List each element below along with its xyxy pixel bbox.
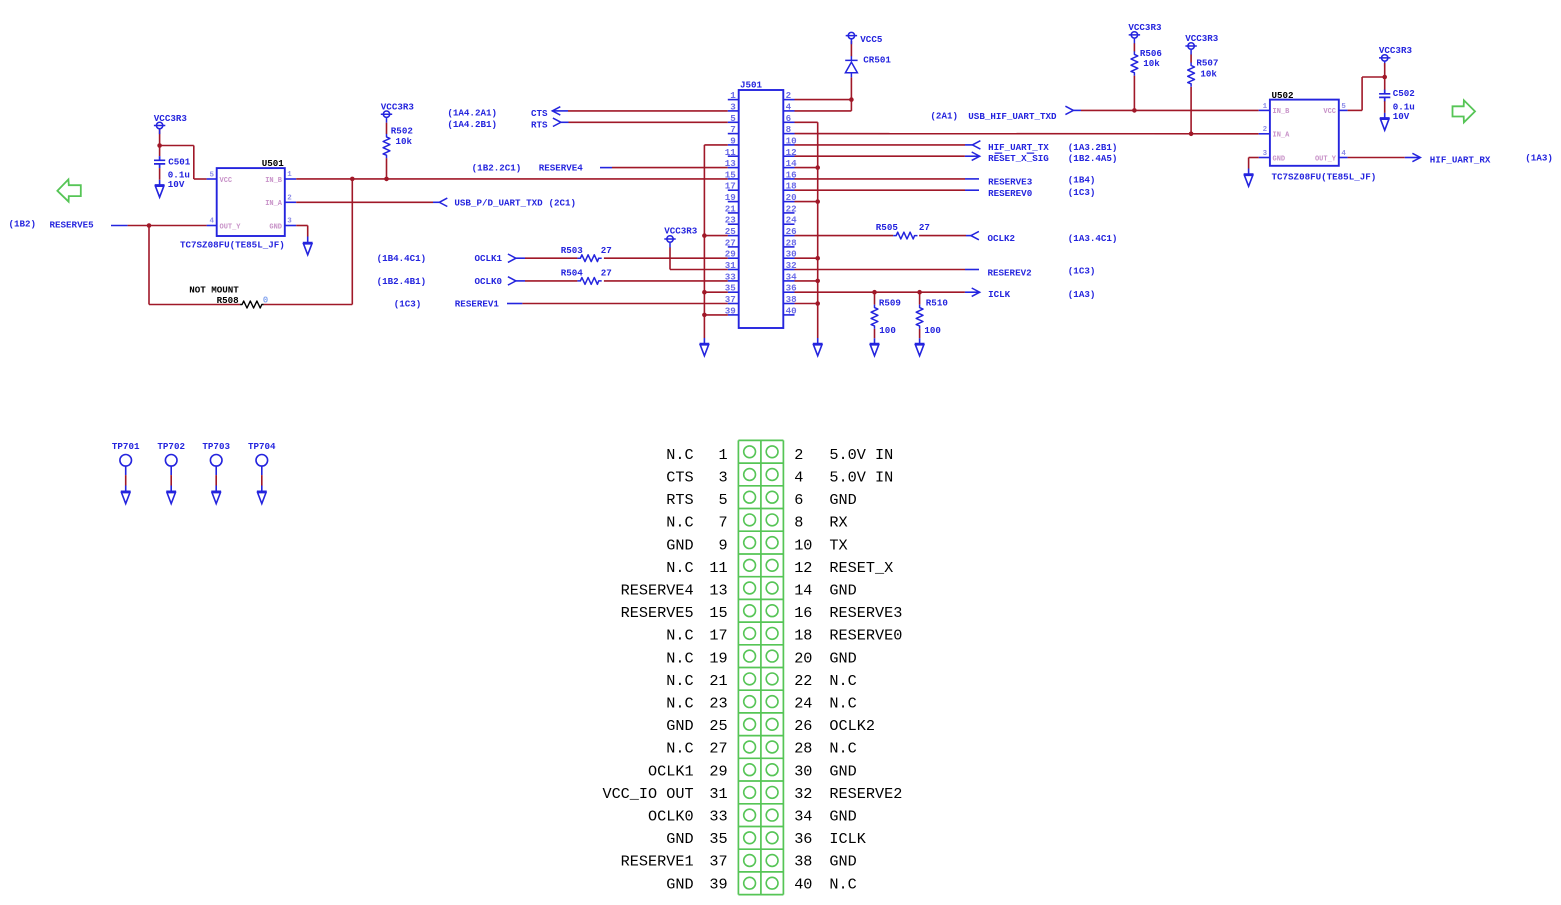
svg-text:J501: J501	[740, 79, 763, 90]
J501 pin 16	[783, 178, 794, 180]
J501 pin 18	[783, 189, 794, 191]
J501 pin 19	[728, 201, 739, 203]
svg-text:(1C3): (1C3)	[1068, 187, 1096, 198]
arrowhead USB_P/D_UART_TXD	[439, 198, 447, 206]
wire VCC3R3 to C501 junction (left)	[159, 129, 161, 146]
U502 pin 2 IN_A stub	[1259, 133, 1270, 135]
junction R507/RX	[1189, 132, 1194, 137]
svg-text:21: 21	[709, 672, 727, 690]
svg-text:N.C: N.C	[666, 740, 693, 758]
svg-text:GND: GND	[829, 649, 856, 667]
svg-text:34: 34	[794, 808, 812, 826]
diode CR501	[845, 56, 857, 78]
U501 pin 5 VCC stub	[207, 178, 217, 180]
ground below TP701	[121, 491, 131, 503]
svg-text:21: 21	[725, 203, 737, 214]
svg-text:(2A1): (2A1)	[930, 111, 958, 122]
svg-text:OCLK0: OCLK0	[475, 276, 503, 287]
table row pins 31/32	[744, 787, 756, 799]
svg-text:RESERVE5: RESERVE5	[50, 220, 95, 231]
svg-text:OCLK1: OCLK1	[475, 253, 503, 264]
svg-text:CR501: CR501	[863, 54, 891, 65]
svg-text:1: 1	[718, 446, 727, 464]
svg-text:39: 39	[709, 875, 727, 893]
svg-text:33: 33	[725, 271, 737, 282]
svg-text:17: 17	[709, 627, 727, 645]
svg-text:13: 13	[709, 582, 727, 600]
svg-text:IN_A: IN_A	[1273, 132, 1291, 140]
wire R509 to ground	[874, 329, 876, 338]
svg-text:TC7SZ08FU(TE85L_JF): TC7SZ08FU(TE85L_JF)	[1272, 172, 1377, 183]
ground below C501	[155, 185, 165, 197]
arrowhead USB_HIF_UART_TXD	[1065, 106, 1073, 114]
svg-text:RESERVE3: RESERVE3	[988, 177, 1033, 188]
svg-text:(1B2): (1B2)	[9, 218, 37, 229]
svg-text:23: 23	[709, 695, 727, 713]
J501 pin 40	[783, 314, 794, 316]
arrowhead HIF_UART_RX	[1412, 153, 1420, 161]
table row pins 29/30	[744, 764, 756, 776]
junction right bus pin14	[815, 165, 820, 170]
svg-text:RESET_X: RESET_X	[829, 559, 893, 577]
svg-text:14: 14	[794, 582, 812, 600]
svg-text:3: 3	[287, 218, 292, 226]
arrowhead HIF_UART_TX	[972, 141, 980, 149]
junction C502/VCC	[1382, 75, 1387, 80]
svg-text:16: 16	[794, 604, 812, 622]
svg-text:38: 38	[794, 853, 812, 871]
svg-text:OUT_Y: OUT_Y	[220, 223, 242, 231]
svg-text:GND: GND	[666, 536, 693, 554]
svg-text:GND: GND	[269, 223, 282, 231]
svg-text:OCLK1: OCLK1	[648, 762, 694, 780]
junction right bus pin34	[815, 279, 820, 284]
svg-text:15: 15	[709, 604, 727, 622]
J501 pin 5	[728, 121, 739, 123]
svg-text:(1C3): (1C3)	[1068, 266, 1096, 277]
wire RESERVE5 to U501 OUT_Y	[128, 225, 207, 227]
J501 pin 39	[728, 314, 739, 316]
svg-text:26: 26	[794, 717, 812, 735]
wire R505 to OCLK2 arrow	[919, 235, 966, 237]
svg-text:13: 13	[725, 158, 737, 169]
svg-text:22: 22	[794, 672, 812, 690]
svg-text:1: 1	[1263, 103, 1268, 111]
svg-text:HIF_UART_TX: HIF_UART_TX	[988, 142, 1049, 153]
U501 pin 3 GND stub	[285, 225, 296, 227]
J501 pin 23	[728, 223, 739, 225]
U502 pin 1 IN_B stub	[1259, 109, 1270, 111]
svg-text:9: 9	[718, 536, 727, 554]
J501 pin 1	[728, 99, 739, 101]
svg-text:(1A3.4C1): (1A3.4C1)	[1068, 233, 1118, 244]
ground below TP703	[211, 491, 221, 503]
svg-text:5: 5	[209, 171, 214, 179]
svg-text:27: 27	[725, 237, 736, 248]
svg-text:18: 18	[794, 627, 812, 645]
svg-text:GND: GND	[829, 491, 856, 509]
svg-text:5: 5	[718, 491, 727, 509]
J501 pin 20	[783, 201, 794, 203]
svg-text:20: 20	[794, 649, 812, 667]
wire VCC3R3 to J501 pin31	[669, 248, 671, 270]
wire ICLK to R509	[874, 292, 876, 304]
svg-text:7: 7	[718, 514, 727, 532]
table row pins 3/4	[744, 469, 756, 481]
table row pins 11/12	[744, 559, 756, 571]
svg-text:VCC: VCC	[1323, 108, 1336, 116]
wire OCLK0 to R504	[525, 280, 577, 282]
J501 pin 7	[728, 133, 739, 135]
J501 pin 13	[728, 167, 739, 169]
wire U502 VCC to VCC3R3/C502	[1348, 109, 1363, 111]
J501 pin 3	[728, 110, 739, 112]
arrowhead RTS	[553, 118, 561, 126]
svg-text:TC7SZ08FU(TE85L_JF): TC7SZ08FU(TE85L_JF)	[180, 240, 285, 251]
table row pins 25/26	[744, 718, 756, 730]
svg-text:10k: 10k	[396, 136, 413, 147]
svg-text:19: 19	[709, 649, 727, 667]
svg-text:(1B2.4B1): (1B2.4B1)	[377, 276, 427, 287]
U501 pin 4 OUT_Y stub	[207, 225, 217, 227]
svg-text:N.C: N.C	[666, 514, 693, 532]
svg-text:R503: R503	[561, 245, 584, 256]
wire ICLK to R510	[919, 292, 921, 304]
svg-text:(1B4.4C1): (1B4.4C1)	[377, 253, 427, 264]
svg-text:(1A3): (1A3)	[1525, 153, 1553, 164]
svg-text:RESEREV1: RESEREV1	[455, 298, 500, 309]
svg-text:36: 36	[794, 830, 812, 848]
svg-text:R508: R508	[217, 295, 240, 306]
svg-text:10k: 10k	[1200, 68, 1217, 79]
svg-text:23: 23	[725, 215, 737, 226]
table row pins 19/20	[744, 650, 756, 662]
wire R507 to RX net	[1190, 87, 1192, 134]
svg-text:VCC3R3: VCC3R3	[664, 226, 698, 237]
svg-text:3: 3	[718, 469, 727, 487]
power symbol VCC3R3 (C501)	[154, 122, 165, 134]
svg-text:U502: U502	[1272, 90, 1294, 101]
wire RTS to J501 pin5	[569, 121, 728, 123]
junction left bus pin25	[702, 233, 707, 238]
table row pins 9/10	[744, 537, 756, 549]
svg-text:5: 5	[1341, 103, 1346, 111]
node junction R508/IN_B	[350, 177, 355, 182]
J501 pin 2	[783, 99, 794, 101]
svg-text:2: 2	[794, 446, 803, 464]
power symbol VCC3R3 (R507)	[1185, 43, 1196, 55]
U502 pin 5 VCC stub	[1339, 109, 1348, 111]
pin table grid	[738, 440, 783, 894]
svg-text:NOT MOUNT: NOT MOUNT	[189, 285, 239, 296]
svg-text:C501: C501	[168, 156, 191, 167]
svg-text:GND: GND	[829, 853, 856, 871]
svg-text:(1A4.2A1): (1A4.2A1)	[447, 108, 497, 119]
svg-text:100: 100	[924, 325, 941, 336]
J501 pin 9	[728, 144, 739, 146]
off-page arrow left (green)	[57, 179, 80, 201]
J501 pin 38	[783, 303, 794, 305]
svg-text:24: 24	[794, 695, 812, 713]
J501 pin 11	[728, 155, 739, 157]
svg-text:OUT_Y: OUT_Y	[1315, 155, 1337, 163]
svg-text:VCC3R3: VCC3R3	[1128, 22, 1162, 33]
svg-text:GND: GND	[829, 582, 856, 600]
svg-text:RESEREV0: RESEREV0	[988, 188, 1032, 199]
net RESERVE5 wire U501.IN_B to J501 pin15	[296, 178, 728, 180]
svg-text:100: 100	[879, 325, 896, 336]
wire RESEREV1 to J501 pin37	[507, 303, 522, 305]
junction ICLK/R509	[872, 290, 877, 295]
svg-text:N.C: N.C	[829, 695, 856, 713]
svg-text:N.C: N.C	[829, 740, 856, 758]
wire U501 GND pin to ground	[296, 225, 308, 227]
svg-text:USB_HIF_UART_TXD: USB_HIF_UART_TXD	[968, 111, 1057, 122]
svg-text:8: 8	[794, 514, 803, 532]
table row pins 21/22	[744, 673, 756, 685]
wire J501 pin2/pin4 to CR501	[795, 99, 852, 101]
table row pins 5/6	[744, 491, 756, 503]
svg-text:(1B2.2C1): (1B2.2C1)	[472, 162, 522, 173]
J501 pin 6	[783, 121, 794, 123]
svg-text:10V: 10V	[168, 179, 185, 190]
svg-text:TX: TX	[829, 536, 847, 554]
svg-text:R509: R509	[879, 297, 901, 308]
svg-text:GND: GND	[829, 808, 856, 826]
wire OCLK1 to R503	[525, 257, 577, 259]
J501 pin 14	[783, 167, 794, 169]
svg-text:GND: GND	[666, 875, 693, 893]
wire R506 to USB_HIF_UART_TXD	[1133, 76, 1135, 111]
resistor R502	[383, 134, 390, 158]
J501 pin 15	[728, 178, 739, 180]
svg-text:GND: GND	[829, 762, 856, 780]
net RESERVE3 wire (pin16)	[795, 178, 966, 180]
wire left GND bus (pins 9,25,35,39)	[704, 144, 727, 146]
svg-text:R505: R505	[876, 222, 899, 233]
J501 pin 10	[783, 144, 794, 146]
svg-text:40: 40	[794, 875, 812, 893]
svg-text:IN_A: IN_A	[265, 200, 283, 208]
wire TP704 to ground	[261, 466, 263, 475]
wire junction to U501 VCC pin5	[160, 145, 194, 147]
svg-text:ICLK: ICLK	[829, 830, 866, 848]
svg-text:7: 7	[730, 124, 736, 135]
wire VCC3R3 to R502	[386, 123, 388, 134]
svg-text:11: 11	[709, 559, 727, 577]
svg-text:RESERVE2: RESERVE2	[829, 785, 902, 803]
svg-text:5.0V IN: 5.0V IN	[829, 469, 893, 487]
table row pins 37/38	[744, 855, 756, 867]
svg-text:HIF_UART_RX: HIF_UART_RX	[1430, 155, 1491, 166]
svg-text:N.C: N.C	[666, 672, 693, 690]
resistor R504	[577, 278, 601, 285]
J501 pin 30	[783, 257, 794, 259]
table row pins 33/34	[744, 809, 756, 821]
J501 pin 4	[783, 110, 794, 112]
svg-text:4: 4	[794, 469, 803, 487]
svg-text:1: 1	[287, 171, 292, 179]
J501 pin 32	[783, 269, 794, 271]
svg-text:RTS: RTS	[531, 119, 548, 130]
svg-text:IN_B: IN_B	[1273, 108, 1291, 116]
svg-text:TP703: TP703	[202, 441, 230, 452]
resistor R508 (0 ohm, not mount)	[240, 301, 264, 308]
svg-text:N.C: N.C	[829, 875, 856, 893]
J501 pin 8	[783, 133, 794, 135]
svg-text:GND: GND	[1273, 155, 1286, 163]
node junction RESERVE5/R508	[147, 223, 152, 228]
svg-text:24: 24	[786, 215, 798, 226]
svg-text:2: 2	[287, 194, 292, 202]
arrowhead RESET_X_SIG	[972, 152, 980, 160]
U501 pin 2 IN_A stub	[285, 201, 296, 203]
svg-text:5.0V IN: 5.0V IN	[829, 446, 893, 464]
svg-text:12: 12	[794, 559, 812, 577]
table row pins 35/36	[744, 832, 756, 844]
svg-text:RX: RX	[829, 514, 847, 532]
net USB_P/D_UART_TXD wire from U501.IN_A	[296, 201, 433, 203]
arrowhead OCLK2	[971, 231, 979, 239]
svg-text:31: 31	[725, 260, 737, 271]
junction right bus pin20	[815, 199, 820, 204]
svg-text:2: 2	[786, 90, 792, 101]
resistor R509	[871, 305, 878, 329]
svg-text:5: 5	[730, 113, 736, 124]
svg-text:4: 4	[209, 218, 214, 226]
svg-text:4: 4	[786, 101, 792, 112]
svg-text:3: 3	[1263, 150, 1268, 158]
wire TP701 to ground	[125, 466, 127, 475]
table row pins 13/14	[744, 582, 756, 594]
J501 pin 24	[783, 223, 794, 225]
svg-text:OCLK0: OCLK0	[648, 808, 694, 826]
J501 pin 36	[783, 291, 794, 293]
J501 pin 12	[783, 155, 794, 157]
svg-text:(1A4.2B1): (1A4.2B1)	[447, 119, 497, 130]
resistor R505	[893, 232, 917, 239]
svg-text:(1B2.4A5): (1B2.4A5)	[1068, 153, 1118, 164]
svg-text:25: 25	[709, 717, 727, 735]
node junction C501/VCC	[157, 143, 162, 148]
svg-text:30: 30	[794, 762, 812, 780]
junction left bus pin35	[702, 290, 707, 295]
svg-text:R510: R510	[926, 297, 948, 308]
svg-text:9: 9	[730, 135, 736, 146]
svg-text:IN_B: IN_B	[265, 177, 283, 185]
resistor R506	[1131, 51, 1138, 75]
svg-text:19: 19	[725, 192, 736, 203]
svg-text:N.C: N.C	[829, 672, 856, 690]
svg-text:(1A3.2B1): (1A3.2B1)	[1068, 142, 1118, 153]
svg-text:28: 28	[794, 740, 812, 758]
svg-text:VCC3R3: VCC3R3	[154, 113, 188, 124]
svg-text:R507: R507	[1196, 58, 1218, 69]
svg-text:2: 2	[1263, 126, 1268, 134]
svg-text:GND: GND	[666, 717, 693, 735]
J501 pin 21	[728, 212, 739, 214]
U501 pin 1 IN_B stub	[285, 178, 296, 180]
svg-text:N.C: N.C	[666, 446, 693, 464]
svg-text:RESERVE0: RESERVE0	[829, 627, 902, 645]
J501 pin 28	[783, 246, 794, 248]
J501 pin 17	[728, 189, 739, 191]
net RX wire J501 pin8 to U502.IN_A	[795, 133, 1259, 135]
J501 pin 31	[728, 269, 739, 271]
wire C501 to ground	[159, 168, 161, 180]
svg-text:TP704: TP704	[248, 441, 276, 452]
svg-text:GND: GND	[666, 830, 693, 848]
junction ICLK/R510	[917, 290, 922, 295]
svg-text:C502: C502	[1393, 88, 1415, 99]
svg-text:(2C1): (2C1)	[549, 198, 577, 209]
table row pins 1/2	[744, 446, 756, 458]
wire R510 to ground	[919, 329, 921, 338]
junction R506/USB_HIF_UART_TXD	[1132, 108, 1137, 113]
arrowhead OCLK0	[508, 277, 516, 285]
svg-text:OCLK2: OCLK2	[829, 717, 875, 735]
test point TP702	[165, 455, 177, 467]
svg-text:U501: U501	[262, 158, 285, 169]
svg-text:R504: R504	[561, 268, 584, 279]
U502 pin 3 GND stub	[1259, 157, 1270, 159]
svg-text:N.C: N.C	[666, 559, 693, 577]
svg-text:(1B4): (1B4)	[1068, 175, 1096, 186]
wire R508 to IN_B net	[264, 304, 353, 306]
svg-text:10k: 10k	[1143, 58, 1160, 69]
junction left bus pin39	[702, 313, 707, 318]
net RESEREV0 wire (pin18)	[795, 189, 966, 191]
svg-text:10V: 10V	[1393, 111, 1410, 122]
ground below TP704	[257, 491, 267, 503]
op-amp U502 body	[1270, 100, 1339, 166]
svg-text:(1C3): (1C3)	[394, 298, 422, 309]
U502 pin 4 OUT_Y stub	[1339, 157, 1348, 159]
svg-text:N.C: N.C	[666, 649, 693, 667]
wire USB_HIF_UART_TXD to U502.IN_B	[1081, 109, 1259, 111]
svg-text:RESERVE1: RESERVE1	[621, 853, 694, 871]
svg-text:8: 8	[786, 124, 792, 135]
resistor R507	[1188, 63, 1195, 87]
net ICLK wire (pin36)	[795, 291, 965, 293]
wire CTS to J501 pin3	[568, 110, 728, 112]
svg-text:VCC_IO OUT: VCC_IO OUT	[602, 785, 693, 803]
wire R504 to J501 pin33	[604, 280, 728, 282]
svg-text:RESERVE4: RESERVE4	[621, 582, 694, 600]
arrowhead OCLK1	[508, 254, 516, 262]
svg-text:27: 27	[601, 245, 612, 256]
op-amp U501 body	[217, 168, 285, 236]
node junction R502/IN_B	[384, 177, 389, 182]
svg-text:10: 10	[794, 536, 812, 554]
svg-text:22: 22	[786, 203, 797, 214]
svg-text:33: 33	[709, 808, 727, 826]
svg-text:USB_P/D_UART_TXD: USB_P/D_UART_TXD	[454, 198, 543, 209]
svg-text:VCC: VCC	[220, 177, 233, 185]
wire U502 GND to ground	[1249, 157, 1259, 159]
svg-text:27: 27	[601, 268, 612, 279]
wire C502 to ground	[1384, 101, 1386, 113]
svg-text:4: 4	[1341, 150, 1346, 158]
net RESEREV2 wire (pin32)	[795, 269, 966, 271]
svg-text:TP702: TP702	[157, 441, 185, 452]
power symbol VCC3R3 (C502)	[1379, 55, 1390, 67]
power symbol VCC3R3 (R502)	[381, 111, 392, 123]
svg-text:RESERVE4: RESERVE4	[539, 162, 584, 173]
J501 pin 29	[728, 257, 739, 259]
svg-text:29: 29	[709, 762, 727, 780]
svg-text:VCC5: VCC5	[860, 34, 883, 45]
